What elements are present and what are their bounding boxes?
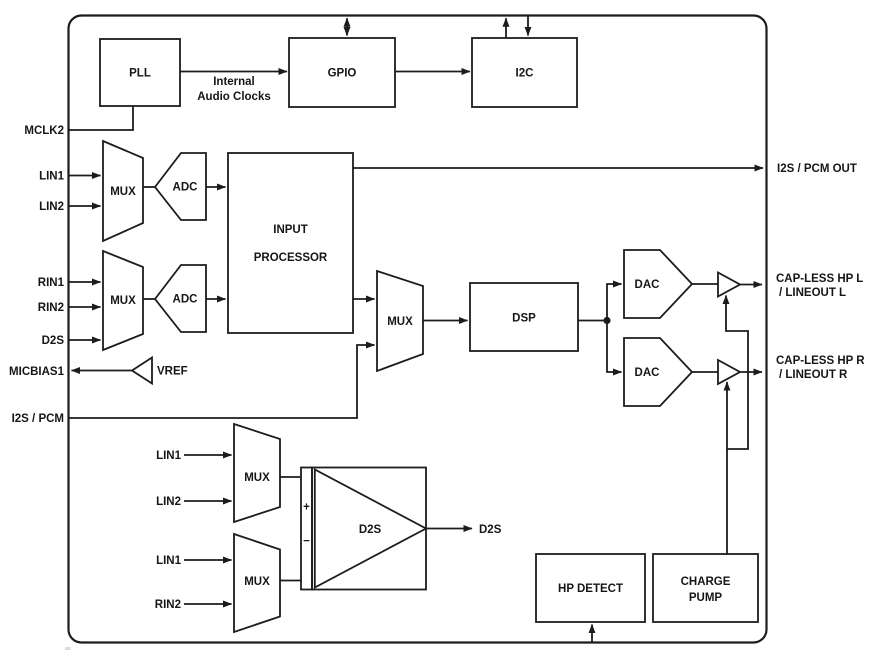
mux E (D2S - input) bbox=[234, 534, 280, 632]
wire LIN1 to mux A bbox=[69, 175, 101, 177]
svg-text:CAP-LESS HP L: CAP-LESS HP L bbox=[776, 273, 863, 285]
svg-text:−: − bbox=[303, 536, 310, 548]
wire input processor to mux C bbox=[353, 298, 375, 300]
wire charge pump branch to amp L bbox=[726, 296, 748, 450]
svg-text:Audio Clocks: Audio Clocks bbox=[197, 91, 270, 103]
pin CAP-LESS HP R / LINEOUT R bbox=[776, 355, 865, 381]
wire PLL to GPIO (Internal Audio Clocks) bbox=[180, 72, 287, 104]
wire charge pump to amp R bbox=[726, 382, 728, 554]
wire mux A to adc A bbox=[143, 186, 155, 188]
mux D (D2S + input) bbox=[234, 424, 280, 522]
wire GPIO to top border (bidirectional) bbox=[346, 18, 348, 35]
adc B bbox=[155, 265, 206, 332]
mux B (right inputs) bbox=[103, 251, 143, 350]
svg-text:I2S / PCM: I2S / PCM bbox=[12, 413, 64, 425]
wire mux E to summing minus bbox=[280, 580, 301, 582]
svg-text:LIN2: LIN2 bbox=[39, 201, 64, 213]
svg-text:LIN1: LIN1 bbox=[156, 450, 182, 462]
svg-text:MUX: MUX bbox=[110, 295, 136, 307]
svg-text:INPUT: INPUT bbox=[273, 224, 308, 236]
wire VREF buffer to MICBIAS1 bbox=[72, 370, 133, 372]
block I2C bbox=[472, 38, 577, 107]
amp R bbox=[718, 360, 740, 384]
wire D2S to mux B bbox=[69, 339, 101, 341]
block PLL bbox=[100, 39, 180, 106]
pin CAP-LESS HP L / LINEOUT L bbox=[776, 273, 863, 299]
block input processor bbox=[228, 153, 353, 333]
svg-text:I2S / PCM OUT: I2S / PCM OUT bbox=[777, 163, 857, 175]
wire mux D to summing plus bbox=[280, 476, 301, 478]
svg-text:+: + bbox=[303, 502, 310, 514]
buffer VREF bbox=[132, 358, 188, 384]
wire GPIO to I2C bbox=[395, 71, 470, 73]
dac R bbox=[624, 338, 692, 406]
svg-text:ADC: ADC bbox=[173, 182, 198, 194]
svg-text:DSP: DSP bbox=[512, 313, 536, 325]
wire I2C to top border (up arrow) bbox=[505, 18, 507, 38]
mux C (dsp source select) bbox=[377, 271, 423, 371]
block GPIO bbox=[289, 38, 395, 107]
svg-text:PROCESSOR: PROCESSOR bbox=[254, 252, 328, 264]
svg-text:D2S: D2S bbox=[479, 524, 502, 536]
adc A bbox=[155, 153, 206, 220]
wire I2S/PCM to mux C bbox=[69, 345, 375, 418]
wire mux B to adc B bbox=[143, 298, 155, 300]
svg-text:ao: ao bbox=[65, 646, 71, 651]
svg-text:PLL: PLL bbox=[129, 68, 151, 80]
svg-text:CAP-LESS HP R: CAP-LESS HP R bbox=[776, 355, 865, 367]
svg-text:HP DETECT: HP DETECT bbox=[558, 583, 623, 595]
dac L bbox=[624, 250, 692, 318]
svg-text:MCLK2: MCLK2 bbox=[24, 125, 64, 137]
svg-text:DAC: DAC bbox=[635, 367, 660, 379]
svg-text:CHARGE: CHARGE bbox=[681, 576, 731, 588]
svg-text:D2S: D2S bbox=[42, 335, 65, 347]
svg-text:MICBIAS1: MICBIAS1 bbox=[9, 366, 65, 378]
mux A (line inputs) bbox=[103, 141, 143, 241]
wire junction to dac L bbox=[607, 284, 622, 321]
svg-text:VREF: VREF bbox=[157, 366, 188, 378]
svg-text:LIN2: LIN2 bbox=[156, 496, 181, 508]
svg-text:MUX: MUX bbox=[110, 186, 136, 198]
svg-text:I2C: I2C bbox=[516, 68, 534, 80]
wire HP detect sense from bottom border bbox=[591, 625, 593, 643]
wire RIN1 to mux B bbox=[69, 281, 101, 283]
wire mux C to DSP bbox=[423, 320, 468, 322]
svg-text:GPIO: GPIO bbox=[328, 68, 357, 80]
svg-text:RIN1: RIN1 bbox=[38, 277, 65, 289]
block DSP bbox=[470, 283, 578, 351]
wire DSP to junction bbox=[578, 320, 607, 322]
svg-text:ADC: ADC bbox=[173, 294, 198, 306]
wire junction to dac R bbox=[607, 321, 622, 373]
svg-text:RIN2: RIN2 bbox=[155, 599, 181, 611]
D2S amp box bbox=[312, 468, 426, 590]
amp L bbox=[718, 273, 740, 297]
wire amp L to HP L output bbox=[740, 284, 762, 286]
wire LIN2 to mux D bbox=[184, 500, 232, 502]
junction node bbox=[603, 317, 610, 324]
block HP DETECT bbox=[536, 554, 645, 622]
wire dac L to amp L bbox=[692, 283, 718, 285]
wire dac R to amp R bbox=[692, 371, 718, 373]
wire MCLK2 to PLL bbox=[69, 106, 133, 130]
wire amp R to HP R output bbox=[740, 371, 762, 373]
wire LIN1 to mux E bbox=[184, 559, 232, 561]
block CHARGE PUMP bbox=[653, 554, 758, 622]
svg-text:DAC: DAC bbox=[635, 279, 660, 291]
wire LIN2 to mux A bbox=[69, 205, 101, 207]
wire RIN2 to mux E bbox=[184, 603, 232, 605]
wire adc B to input processor bbox=[206, 298, 226, 300]
wire RIN2 to mux B bbox=[69, 306, 101, 308]
svg-text:LIN1: LIN1 bbox=[39, 171, 65, 183]
svg-text:MUX: MUX bbox=[387, 316, 413, 328]
svg-text:Internal: Internal bbox=[213, 76, 255, 88]
svg-text:LIN1: LIN1 bbox=[156, 555, 182, 567]
wire LIN1 to mux D bbox=[184, 454, 232, 456]
chip outline bbox=[69, 16, 767, 643]
wire adc A to input processor bbox=[206, 186, 226, 188]
wire top border to I2C (down arrow) bbox=[527, 16, 529, 36]
svg-text:D2S: D2S bbox=[359, 524, 382, 536]
wire D2S output bbox=[426, 528, 472, 530]
svg-text:MUX: MUX bbox=[244, 576, 270, 588]
svg-text:RIN2: RIN2 bbox=[38, 302, 64, 314]
svg-text:/ LINEOUT L: / LINEOUT L bbox=[779, 287, 846, 299]
summing strip bbox=[301, 468, 312, 590]
D2S amp triangle bbox=[315, 470, 426, 588]
svg-text:PUMP: PUMP bbox=[689, 592, 723, 604]
svg-text:MUX: MUX bbox=[244, 472, 270, 484]
wire input processor to I2S/PCM OUT pin bbox=[353, 167, 763, 169]
svg-text:/ LINEOUT R: / LINEOUT R bbox=[779, 369, 848, 381]
